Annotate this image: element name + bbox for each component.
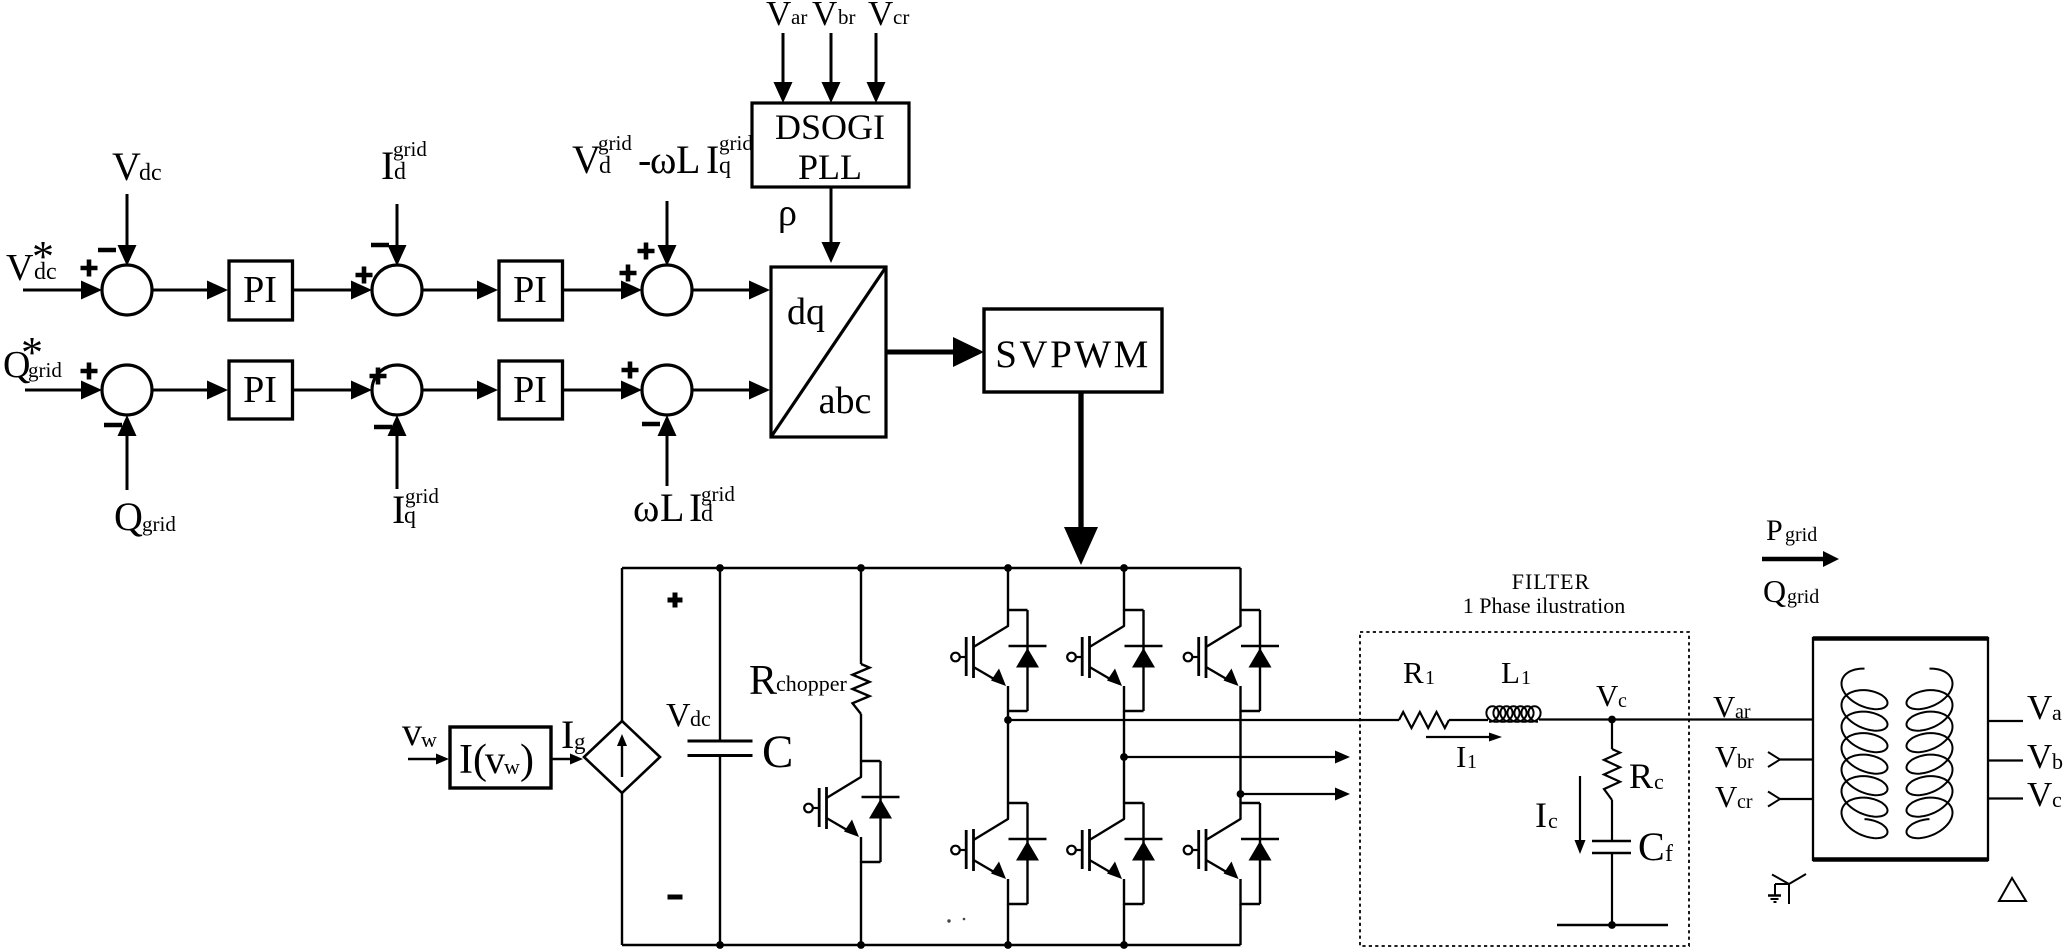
ground bar filter <box>1557 921 1668 929</box>
node Qgrid* input wire <box>25 381 102 400</box>
wire feedforward up arrow into S6 <box>658 415 677 486</box>
wire S1 to PI1 <box>152 281 228 300</box>
svg-text:1: 1 <box>1521 667 1531 689</box>
wire DC top bus <box>622 567 1241 569</box>
svg-text:grid: grid <box>142 512 176 536</box>
SVPWM block <box>984 309 1162 392</box>
wire left rail bottom <box>621 793 623 945</box>
wire R1 to L1 <box>1449 719 1488 721</box>
label Iq grid <box>392 484 439 532</box>
wire I1 arrow <box>1426 733 1502 742</box>
resistor R1 <box>1399 712 1449 728</box>
summing junction S2 (Id loop) <box>372 265 422 315</box>
label 1 Phase ilustration <box>1463 593 1626 618</box>
svg-text:PI: PI <box>243 369 277 411</box>
svg-text:cr: cr <box>893 5 909 29</box>
sign plus S1 <box>81 260 98 277</box>
transformer primary winding <box>1842 669 1888 839</box>
svg-text:*: * <box>32 232 54 281</box>
svg-text:w: w <box>421 727 437 752</box>
node Vdc* input wire <box>23 281 102 300</box>
capacitor C plates <box>688 741 753 756</box>
svg-text:c: c <box>1654 769 1664 794</box>
summing junction S6 (feedforward q) <box>642 365 692 415</box>
label plus DC <box>668 593 683 608</box>
svg-text:SVPWM: SVPWM <box>995 333 1151 376</box>
label Vcr input <box>868 0 909 33</box>
wire Qgrid up arrow into S4 <box>118 415 137 490</box>
svg-text:ar: ar <box>1735 701 1751 723</box>
label Vb <box>2027 737 2063 776</box>
wire S4 to PI3 <box>152 381 228 400</box>
summing junction S3 (feedforward d) <box>642 265 692 315</box>
wire Id down arrow into S2 <box>388 204 407 266</box>
delta symbol <box>1999 878 2026 901</box>
capacitor Cf plates <box>1592 841 1631 853</box>
wire leg2 top lead <box>1120 564 1128 610</box>
wire thick arrow SVPWM down to inverter <box>1064 392 1098 565</box>
svg-text:V: V <box>868 0 893 33</box>
svg-text:I: I <box>706 137 719 182</box>
svg-text:P: P <box>1766 514 1783 547</box>
PI controller PI2 <box>499 261 563 320</box>
IGBT upper leg3 with diode <box>1184 610 1279 712</box>
svg-text:I: I <box>561 712 574 757</box>
sign plus S4 <box>81 363 98 380</box>
svg-text:c: c <box>1618 690 1627 712</box>
svg-text:grid: grid <box>598 131 632 155</box>
sign plus S2 <box>356 267 373 284</box>
wire Va output stub <box>1988 720 2023 722</box>
IGBT upper leg1 with diode <box>951 610 1046 712</box>
wire Iq up arrow into S5 <box>388 415 407 489</box>
wire Var arrow into PLL <box>774 33 793 103</box>
svg-text:R: R <box>1403 655 1424 690</box>
sign minus S6 <box>642 422 660 427</box>
wire Vcr arrow into PLL <box>867 33 886 103</box>
wire Ig arrow into source <box>551 754 583 765</box>
svg-text:d: d <box>394 159 406 185</box>
resistor Rc <box>1604 749 1620 800</box>
sign plus S6 <box>622 362 639 379</box>
label Vbr wire <box>1715 739 1754 774</box>
dq-abc transform block <box>771 267 886 437</box>
PI controller PI1 <box>229 261 293 320</box>
wire leg2 bottom lead <box>1120 904 1128 949</box>
resistor Rchopper <box>853 664 870 714</box>
wire leg1 mid <box>1007 711 1009 803</box>
connector chevron Vbr <box>1768 752 1780 767</box>
wire left rail top <box>621 568 623 721</box>
controlled current source diamond <box>584 721 660 793</box>
svg-text:*: * <box>21 328 43 377</box>
wire S3 to dq block <box>692 281 770 300</box>
svg-text:ω: ω <box>650 137 676 182</box>
wire power flow arrow <box>1762 551 1839 567</box>
transformer secondary winding <box>1907 669 1953 839</box>
svg-text:dc: dc <box>139 160 162 186</box>
svg-text:cr: cr <box>1737 791 1753 813</box>
wire PI2 to S3 <box>563 281 643 300</box>
label R1 <box>1403 655 1435 690</box>
label Ic <box>1535 795 1558 835</box>
wire DC bottom bus <box>622 944 1241 946</box>
label Vbr input <box>812 0 856 33</box>
svg-text:V: V <box>812 0 837 33</box>
node leg2 phase tap <box>1120 753 1128 761</box>
svg-text:grid: grid <box>393 137 427 161</box>
svg-text:V: V <box>1713 689 1736 724</box>
wire PI1 to S2 <box>293 281 373 300</box>
svg-text:V: V <box>1715 739 1738 774</box>
wire chopper branch top <box>857 564 865 664</box>
svg-text:R: R <box>749 658 777 704</box>
svg-text:c: c <box>2052 787 2062 812</box>
transformer box <box>1813 638 1988 860</box>
PI controller PI4 <box>499 361 563 419</box>
label Qgrid* reference <box>3 328 62 386</box>
svg-text:g: g <box>574 729 586 754</box>
wire Vdc down arrow into S1 <box>118 194 137 266</box>
IGBT lower leg2 with diode <box>1067 803 1162 905</box>
label Pgrid <box>1766 514 1817 547</box>
wire Vbr arrow into PLL <box>822 33 841 103</box>
wire capacitor branch bottom <box>716 756 724 949</box>
svg-text:V: V <box>6 247 34 289</box>
wire feedforward down arrow into S3 <box>658 201 677 266</box>
ellipsis dots <box>947 918 965 923</box>
inductor L1 <box>1486 706 1540 722</box>
sign minus S2 <box>371 243 389 248</box>
svg-text:1 Phase ilustration: 1 Phase ilustration <box>1463 593 1626 618</box>
wire Rc to Cf <box>1611 800 1613 841</box>
wire Vc to Rc <box>1611 720 1613 750</box>
wire S2 to PI2 <box>422 281 498 300</box>
svg-text:C: C <box>762 726 793 778</box>
sign plus S5 <box>370 368 387 385</box>
label rho <box>778 192 797 234</box>
svg-text:R: R <box>1629 756 1653 796</box>
wire thick arrow dq to SVPWM <box>886 337 984 367</box>
IGBT lower leg1 with diode <box>951 803 1046 905</box>
label Vd grid feedforward <box>572 131 753 182</box>
svg-text:w: w <box>504 754 520 779</box>
node leg3 phase tap <box>1237 790 1245 798</box>
svg-text:grid: grid <box>1785 524 1817 546</box>
svg-text:L: L <box>676 137 700 182</box>
summing junction S5 (Iq loop) <box>372 365 422 415</box>
wire Vb output stub <box>1988 759 2023 761</box>
wire vw arrow into I(vw) <box>408 754 449 765</box>
wire Rchopper to IGBT <box>860 714 862 761</box>
wire phase A output <box>1008 719 1399 721</box>
wire PI3 to S5 <box>293 381 373 400</box>
svg-text:Q: Q <box>114 494 143 539</box>
star ground symbol <box>1768 874 1806 904</box>
DSOGI PLL block <box>752 103 909 187</box>
summing junction S4 (Q loop) <box>102 365 152 415</box>
label minus DC <box>668 895 683 900</box>
svg-text:DSOGI: DSOGI <box>775 107 885 147</box>
svg-text:br: br <box>1737 751 1754 773</box>
label Vdc measured <box>112 144 162 189</box>
sign minus S4 <box>104 423 122 428</box>
sign minus S1 <box>98 248 116 253</box>
svg-text:V: V <box>572 137 601 182</box>
svg-text:I: I <box>1535 795 1547 835</box>
wire Cf to ground <box>1611 853 1613 925</box>
svg-text:c: c <box>1548 808 1558 833</box>
svg-text:I(: I( <box>459 737 487 783</box>
svg-text:FILTER: FILTER <box>1512 569 1591 594</box>
label Qgrid <box>1763 573 1819 609</box>
sign plus S3 left <box>620 265 637 282</box>
svg-text:I: I <box>1456 739 1466 774</box>
svg-text:grid: grid <box>1787 586 1819 608</box>
label Va <box>2027 688 2062 727</box>
svg-text:grid: grid <box>405 484 439 508</box>
svg-text:PLL: PLL <box>798 147 862 187</box>
node Vc <box>1608 716 1616 724</box>
wire S6 to dq block <box>692 381 770 400</box>
I(vw) wind source block <box>450 727 551 788</box>
label Vdc DC-link <box>666 697 711 734</box>
svg-text:PI: PI <box>243 269 277 311</box>
label Vdc* reference <box>6 232 57 289</box>
summing junction S1 (Vdc loop) <box>102 265 152 315</box>
node leg1 phase tap <box>1004 716 1012 724</box>
label Rc <box>1629 756 1664 796</box>
svg-text:v: v <box>402 709 422 754</box>
svg-text:V: V <box>2027 688 2052 727</box>
svg-text:L: L <box>1501 655 1520 690</box>
svg-text:V: V <box>766 0 791 33</box>
svg-text:V: V <box>1596 678 1619 713</box>
wire phase B output arrow <box>1124 751 1350 764</box>
wire Vc output stub <box>1988 797 2023 799</box>
label I1 <box>1456 739 1477 774</box>
svg-text:v: v <box>485 737 505 782</box>
svg-text:L: L <box>660 485 684 530</box>
label FILTER <box>1512 569 1591 594</box>
wire leg3 mid <box>1239 711 1241 803</box>
label Vcr wire <box>1715 779 1753 814</box>
label Qgrid measured <box>114 494 176 539</box>
wire leg3 bottom lead <box>1239 904 1241 945</box>
IGBT upper leg2 with diode <box>1067 610 1162 712</box>
label Ig <box>561 712 586 757</box>
svg-text:f: f <box>1665 841 1673 867</box>
svg-text:ar: ar <box>791 5 807 29</box>
svg-text:V: V <box>666 697 691 734</box>
svg-text:br: br <box>838 5 856 29</box>
svg-text:ω: ω <box>633 485 659 530</box>
svg-text:grid: grid <box>719 131 753 155</box>
svg-text:d: d <box>599 153 611 179</box>
wire PI4 to S6 <box>563 381 643 400</box>
svg-text:chopper: chopper <box>776 671 848 696</box>
svg-text:grid: grid <box>701 482 735 506</box>
svg-text:abc: abc <box>819 380 872 422</box>
wire chopper to bottom bus <box>857 862 865 949</box>
svg-text:q: q <box>719 153 731 179</box>
svg-text:V: V <box>1715 779 1738 814</box>
label Var input <box>766 0 807 33</box>
svg-text:dq: dq <box>787 291 825 333</box>
label Vc <box>1596 678 1627 713</box>
svg-text:): ) <box>520 737 534 783</box>
wire Vcr stub <box>1780 798 1813 800</box>
svg-text:1: 1 <box>1425 667 1435 689</box>
svg-text:PI: PI <box>513 269 547 311</box>
IGBT lower leg3 with diode <box>1184 803 1279 905</box>
connector chevron Vcr <box>1768 792 1780 807</box>
wire Ic arrow <box>1575 776 1586 854</box>
label Vc grid <box>2027 775 2062 814</box>
wire L1 to transformer (Var) <box>1539 718 1813 720</box>
label vw <box>402 709 437 754</box>
label C <box>762 726 793 778</box>
svg-text:PI: PI <box>513 369 547 411</box>
label Var wire <box>1713 689 1751 724</box>
wire Vbr stub <box>1780 758 1813 760</box>
wire leg2 mid <box>1123 711 1125 803</box>
wire capacitor branch top <box>716 564 724 741</box>
label wL Id grid feedforward <box>633 482 735 530</box>
wire leg1 top lead <box>1004 564 1012 610</box>
wire rho arrow PLL to dq block <box>822 187 841 263</box>
svg-text:V: V <box>2027 737 2052 776</box>
svg-text:a: a <box>2052 700 2062 725</box>
svg-text:V: V <box>112 144 141 189</box>
svg-text:C: C <box>1638 824 1665 869</box>
svg-text:b: b <box>2052 749 2063 774</box>
label Id grid <box>381 137 427 188</box>
wire S5 to PI4 <box>422 381 498 400</box>
wire leg1 bottom lead <box>1004 904 1012 949</box>
sign plus S3 top <box>638 243 655 260</box>
svg-text:Q: Q <box>1763 573 1786 609</box>
PI controller PI3 <box>229 361 293 419</box>
wire phase C output arrow <box>1241 788 1351 801</box>
label L1 <box>1501 655 1531 690</box>
sign minus S5 <box>374 425 392 430</box>
label Rchopper <box>749 658 848 704</box>
wire leg3 top lead <box>1239 568 1241 610</box>
svg-text:ρ: ρ <box>778 192 797 234</box>
svg-text:1: 1 <box>1467 751 1477 773</box>
filter dashed box <box>1360 632 1689 946</box>
svg-text:dc: dc <box>690 706 711 731</box>
label Cf <box>1638 824 1673 869</box>
IGBT chopper switch <box>804 761 899 863</box>
svg-text:V: V <box>2027 775 2052 814</box>
